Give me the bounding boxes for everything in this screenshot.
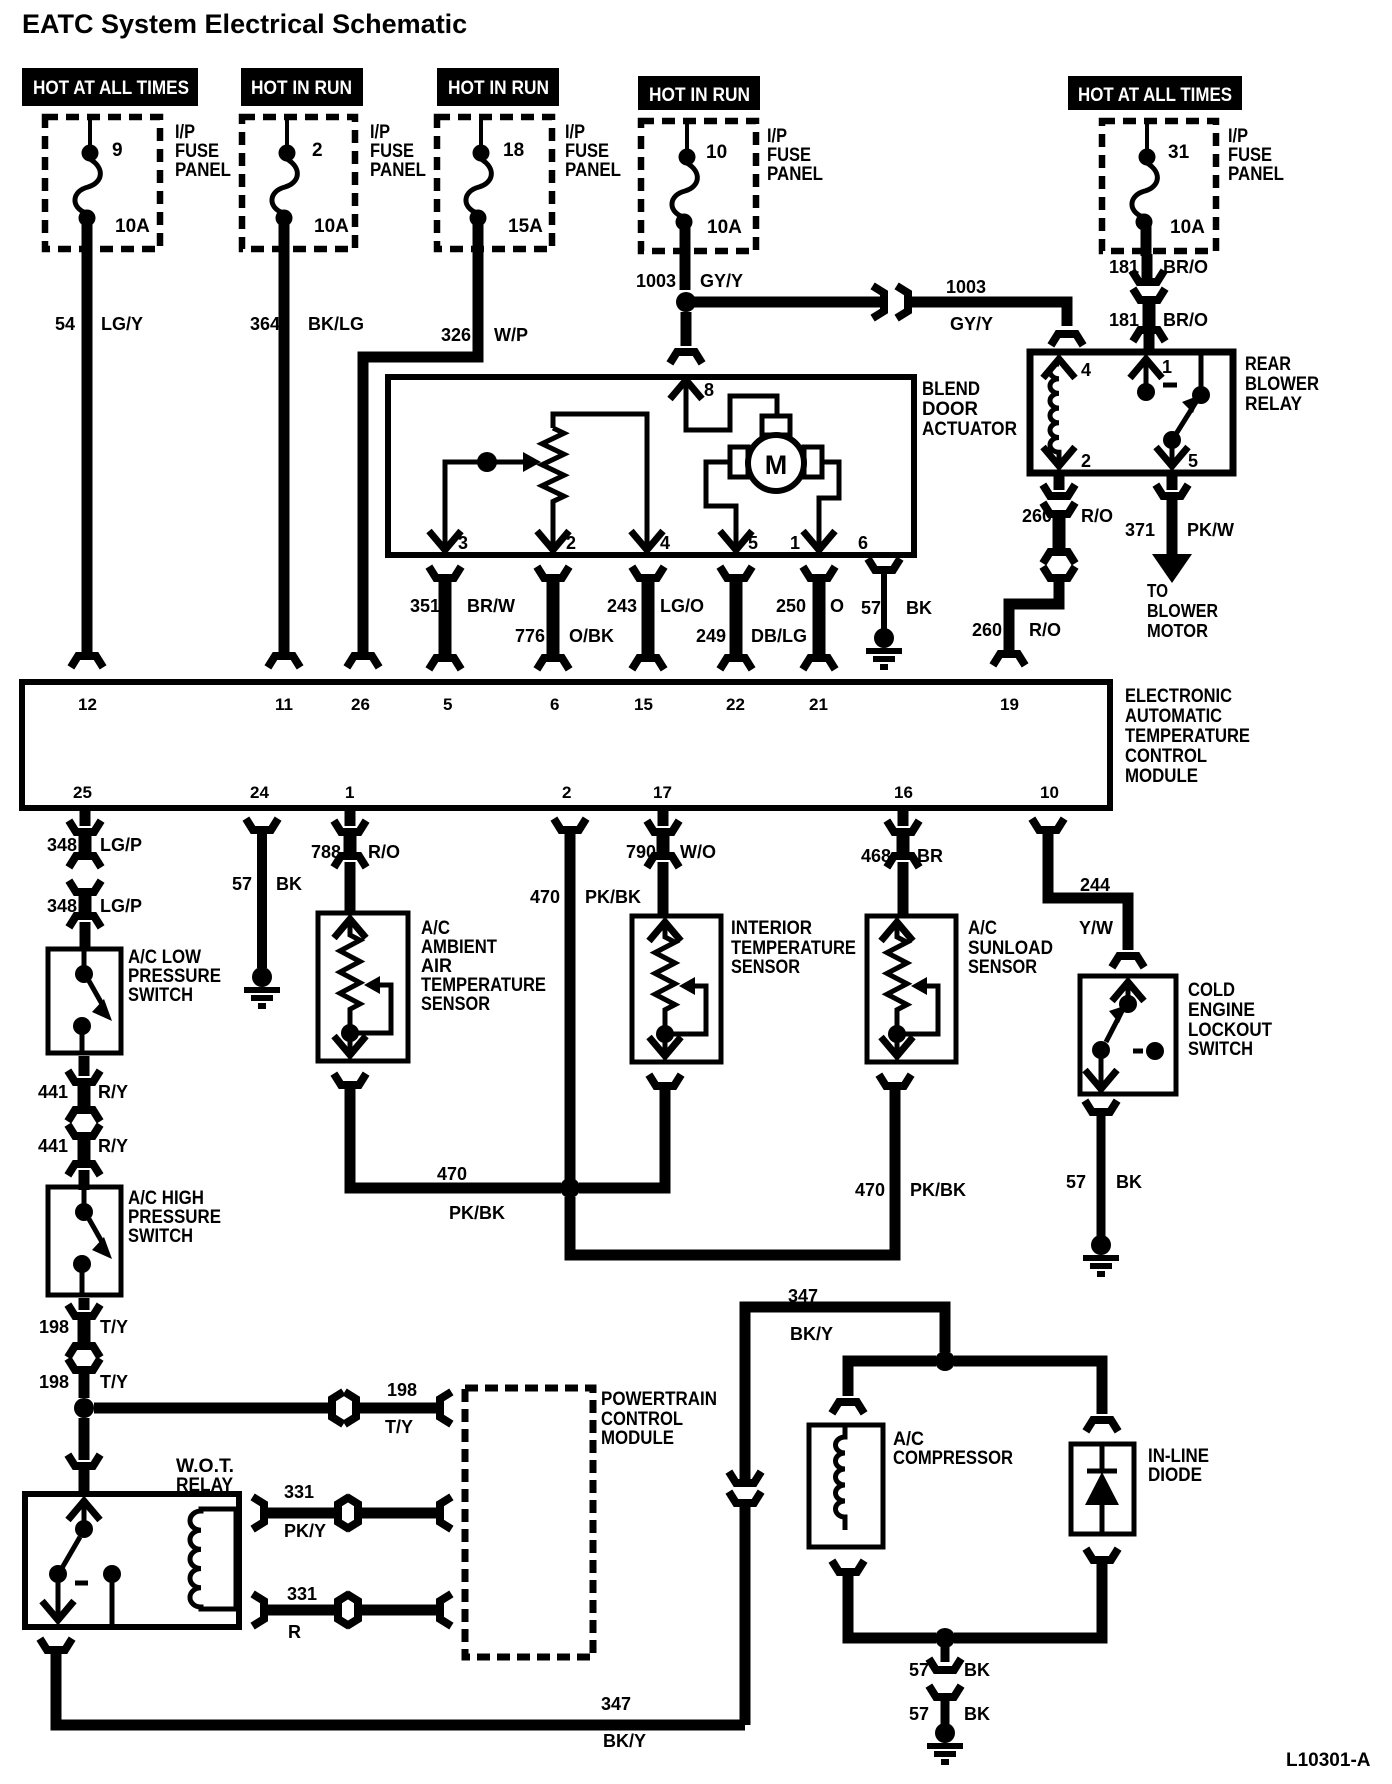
svg-text:10A: 10A xyxy=(1170,217,1205,238)
svg-text:18: 18 xyxy=(503,140,524,161)
svg-text:LG/O: LG/O xyxy=(660,596,704,616)
svg-text:SWITCH: SWITCH xyxy=(1188,1039,1253,1060)
svg-text:R/O: R/O xyxy=(368,842,400,862)
svg-text:3: 3 xyxy=(458,533,468,553)
svg-text:BK/Y: BK/Y xyxy=(603,1731,646,1751)
svg-text:SENSOR: SENSOR xyxy=(731,957,800,978)
svg-text:POWERTRAIN: POWERTRAIN xyxy=(601,1389,717,1410)
svg-text:BK: BK xyxy=(1116,1172,1142,1192)
svg-text:BLEND: BLEND xyxy=(922,379,980,400)
svg-text:SWITCH: SWITCH xyxy=(128,985,193,1006)
svg-text:6: 6 xyxy=(858,533,868,553)
svg-text:RELAY: RELAY xyxy=(1245,394,1302,415)
svg-text:5: 5 xyxy=(443,695,452,714)
svg-text:12: 12 xyxy=(78,695,97,714)
svg-text:26: 26 xyxy=(351,695,370,714)
wire from module pin 16 xyxy=(898,811,909,826)
svg-text:8: 8 xyxy=(704,380,714,400)
W.O.T. relay box xyxy=(25,1456,239,1627)
in-line connector 790 W/O xyxy=(626,824,716,864)
svg-text:17: 17 xyxy=(653,783,672,802)
svg-text:FUSE: FUSE xyxy=(767,145,811,166)
svg-text:DB/LG: DB/LG xyxy=(751,626,807,646)
wire 244 Y/W from module pin 10 xyxy=(1034,822,1142,964)
svg-text:CONTROL: CONTROL xyxy=(1125,746,1207,767)
svg-text:W.O.T.: W.O.T. xyxy=(176,1456,234,1477)
wire to A/C compressor xyxy=(834,1361,936,1410)
connector 250 O (pin 1 to module 21) xyxy=(776,570,844,666)
junction node 198 xyxy=(74,1398,94,1418)
svg-text:BLOWER: BLOWER xyxy=(1147,601,1218,621)
svg-text:HOT AT ALL TIMES: HOT AT ALL TIMES xyxy=(33,78,189,99)
svg-text:FUSE: FUSE xyxy=(565,141,609,162)
svg-text:R/O: R/O xyxy=(1029,620,1061,640)
svg-text:10: 10 xyxy=(706,142,727,163)
svg-text:A/C: A/C xyxy=(968,918,997,939)
wire 57 BK blend door pin 6 ground xyxy=(861,562,932,630)
blend door wiper wire pin 3 xyxy=(429,452,541,553)
svg-text:TEMPERATURE: TEMPERATURE xyxy=(1125,726,1250,747)
wire 57 BK upper half connector xyxy=(909,1647,990,1680)
svg-text:181: 181 xyxy=(1109,310,1139,330)
ground (blend door pin 6) xyxy=(866,628,902,667)
fuse 9 10A I/P fuse panel xyxy=(45,114,231,257)
svg-text:2: 2 xyxy=(1081,451,1091,471)
svg-text:31: 31 xyxy=(1168,142,1190,163)
in-line connector 198 T/Y upper xyxy=(39,1308,128,1354)
connector 249 DB/LG (pin 5 to module 22) xyxy=(696,570,807,666)
svg-text:FUSE: FUSE xyxy=(175,141,219,162)
svg-text:PRESSURE: PRESSURE xyxy=(128,1207,221,1228)
svg-text:331: 331 xyxy=(287,1584,317,1604)
wire 347 BK/Y riser to compressor circuit xyxy=(731,1286,945,1725)
svg-text:I/P: I/P xyxy=(767,126,787,147)
svg-text:16: 16 xyxy=(894,783,913,802)
svg-text:326: 326 xyxy=(441,325,471,345)
svg-text:5: 5 xyxy=(748,533,758,553)
svg-text:BK: BK xyxy=(276,874,302,894)
svg-text:441: 441 xyxy=(38,1082,68,1102)
svg-text:468: 468 xyxy=(861,846,891,866)
svg-text:HOT IN RUN: HOT IN RUN xyxy=(251,78,352,99)
svg-text:BR/O: BR/O xyxy=(1163,257,1208,277)
svg-text:R/Y: R/Y xyxy=(98,1136,128,1156)
interior temperature sensor xyxy=(632,916,856,1062)
svg-text:347: 347 xyxy=(788,1286,818,1306)
svg-text:AIR: AIR xyxy=(421,956,452,977)
svg-text:1: 1 xyxy=(345,783,354,802)
power label HOT AT ALL TIMES (fuse 9) xyxy=(22,68,198,106)
wire from module pin 17 xyxy=(658,811,669,826)
fuse 10 10A I/P fuse panel xyxy=(641,118,823,258)
svg-text:249: 249 xyxy=(696,626,726,646)
svg-text:SWITCH: SWITCH xyxy=(128,1226,193,1247)
W.O.T. relay coil xyxy=(190,1509,236,1609)
svg-text:DOOR: DOOR xyxy=(922,399,978,420)
svg-text:BR/O: BR/O xyxy=(1163,310,1208,330)
in-line connector 441 R/Y upper xyxy=(38,1074,128,1118)
wire 364 BK/LG fuse 2 to module pin 11 xyxy=(250,255,364,664)
power label HOT IN RUN (fuse 18) xyxy=(437,68,559,106)
wire into A/C high pressure switch xyxy=(79,1170,90,1190)
svg-text:PANEL: PANEL xyxy=(175,160,231,181)
svg-text:181: 181 xyxy=(1109,257,1139,277)
svg-text:250: 250 xyxy=(776,596,806,616)
in-line connector 181 BR/O to relay pin 1 xyxy=(1109,292,1208,352)
svg-text:PRESSURE: PRESSURE xyxy=(128,966,221,987)
wire below W.O.T. relay xyxy=(42,1642,745,1725)
power label HOT IN RUN (fuse 10) xyxy=(638,76,760,110)
svg-text:1: 1 xyxy=(790,533,800,553)
svg-text:2: 2 xyxy=(566,533,576,553)
ground (module pin 24) xyxy=(244,967,280,1006)
svg-text:TEMPERATURE: TEMPERATURE xyxy=(731,938,856,959)
svg-text:470: 470 xyxy=(530,887,560,907)
wire below interior sensor to 470 junction xyxy=(579,1078,679,1188)
svg-text:1003: 1003 xyxy=(636,271,676,291)
wire end relay pin 2 xyxy=(1045,476,1073,496)
connector 776 O/BK (pin 2 to module 6) xyxy=(515,570,614,666)
svg-text:R: R xyxy=(288,1622,301,1642)
svg-text:57: 57 xyxy=(861,598,881,618)
svg-text:SENSOR: SENSOR xyxy=(968,957,1037,978)
svg-text:4: 4 xyxy=(660,533,670,553)
wire below sunload sensor (470 PK/BK) xyxy=(570,1078,966,1255)
svg-text:347: 347 xyxy=(601,1694,631,1714)
wire 326 W/P fuse 18 to module pin 26 xyxy=(349,255,528,664)
svg-text:25: 25 xyxy=(73,783,92,802)
svg-text:FUSE: FUSE xyxy=(1228,145,1272,166)
svg-text:EATC System Electrical Schemat: EATC System Electrical Schematic xyxy=(22,9,467,39)
svg-text:57: 57 xyxy=(909,1660,929,1680)
svg-text:470: 470 xyxy=(437,1164,467,1184)
svg-text:CONTROL: CONTROL xyxy=(601,1409,683,1430)
svg-text:LG/Y: LG/Y xyxy=(101,314,143,334)
svg-text:I/P: I/P xyxy=(175,122,195,143)
wire 331 R W.O.T. to PCM xyxy=(256,1584,448,1642)
svg-text:I/P: I/P xyxy=(1228,126,1248,147)
in-line connector 441 R/Y lower xyxy=(38,1128,128,1172)
svg-text:57: 57 xyxy=(909,1704,929,1724)
wire into interior temperature sensor xyxy=(658,862,669,918)
svg-text:MODULE: MODULE xyxy=(601,1428,674,1449)
svg-text:10A: 10A xyxy=(314,216,349,237)
svg-text:331: 331 xyxy=(284,1482,314,1502)
power label HOT AT ALL TIMES (fuse 31) xyxy=(1068,76,1242,110)
wire into sunload sensor xyxy=(898,862,909,918)
svg-text:24: 24 xyxy=(250,783,269,802)
svg-text:PK/BK: PK/BK xyxy=(585,887,641,907)
fuse 2 10A I/P fuse panel xyxy=(242,114,426,257)
svg-text:HOT AT ALL TIMES: HOT AT ALL TIMES xyxy=(1078,85,1232,106)
svg-text:1003: 1003 xyxy=(946,277,986,297)
svg-text:244: 244 xyxy=(1080,875,1110,895)
blend door motor wire to pin 1 xyxy=(790,462,868,553)
svg-text:W/P: W/P xyxy=(494,325,528,345)
svg-text:AUTOMATIC: AUTOMATIC xyxy=(1125,706,1222,727)
connector 243 LG/O (pin 4 to module 15) xyxy=(607,570,704,666)
connector 198 T/Y lower half xyxy=(39,1362,128,1398)
svg-text:790: 790 xyxy=(626,842,656,862)
svg-text:348: 348 xyxy=(47,835,77,855)
powertrain control module box xyxy=(465,1388,717,1657)
wire 347 BK/Y bottom run labels xyxy=(601,1694,646,1751)
fuse 31 10A I/P fuse panel xyxy=(1102,118,1284,256)
svg-text:T/Y: T/Y xyxy=(100,1372,128,1392)
svg-text:W/O: W/O xyxy=(680,842,716,862)
in-line diode xyxy=(1071,1444,1209,1534)
svg-text:LG/P: LG/P xyxy=(100,896,142,916)
rear blower relay coil pins 4-2 xyxy=(1043,359,1091,471)
svg-text:R/Y: R/Y xyxy=(98,1082,128,1102)
svg-text:470: 470 xyxy=(855,1180,885,1200)
svg-text:PK/W: PK/W xyxy=(1187,520,1234,540)
svg-text:BK: BK xyxy=(964,1660,990,1680)
wire into ambient air temperature sensor xyxy=(345,862,356,915)
fuse 18 15A I/P fuse panel xyxy=(437,114,621,257)
rear blower relay switch pins 1-5 xyxy=(1130,355,1210,471)
wire below A/C low pressure switch xyxy=(79,1056,90,1076)
A/C ambient air temperature sensor xyxy=(318,913,546,1061)
svg-text:LOCKOUT: LOCKOUT xyxy=(1188,1020,1272,1041)
svg-text:SUNLOAD: SUNLOAD xyxy=(968,938,1053,959)
wire 371 PK/W arrow to blower motor xyxy=(1125,500,1234,641)
A/C low pressure switch xyxy=(48,947,221,1053)
svg-text:LG/P: LG/P xyxy=(100,835,142,855)
svg-text:441: 441 xyxy=(38,1136,68,1156)
svg-text:22: 22 xyxy=(726,695,745,714)
svg-text:364: 364 xyxy=(250,314,280,334)
svg-text:DIODE: DIODE xyxy=(1148,1465,1202,1486)
svg-text:243: 243 xyxy=(607,596,637,616)
wire 57 BK below cold engine lockout switch xyxy=(1066,1104,1142,1237)
wire 54 LG/Y fuse 9 to module pin 12 xyxy=(55,255,143,664)
in-line connector 260 R/O xyxy=(1022,506,1113,560)
svg-text:15: 15 xyxy=(634,695,653,714)
svg-text:260: 260 xyxy=(972,620,1002,640)
svg-text:A/C: A/C xyxy=(893,1429,924,1450)
svg-text:A/C: A/C xyxy=(421,918,450,939)
svg-text:PANEL: PANEL xyxy=(370,160,426,181)
svg-text:6: 6 xyxy=(550,695,559,714)
wire below A/C high pressure switch xyxy=(79,1298,90,1310)
svg-text:GY/Y: GY/Y xyxy=(950,314,993,334)
svg-text:15A: 15A xyxy=(508,216,543,237)
svg-text:BLOWER: BLOWER xyxy=(1245,374,1319,395)
svg-text:788: 788 xyxy=(311,842,341,862)
wire from module pin 24 to ground xyxy=(232,822,302,968)
svg-text:O/BK: O/BK xyxy=(569,626,614,646)
svg-text:4: 4 xyxy=(1081,360,1091,380)
svg-text:L10301-A: L10301-A xyxy=(1286,1750,1371,1771)
svg-text:TEMPERATURE: TEMPERATURE xyxy=(421,975,546,996)
svg-text:MODULE: MODULE xyxy=(1125,766,1198,787)
blend door actuator box xyxy=(388,377,1017,555)
svg-text:260: 260 xyxy=(1022,506,1052,526)
wire 1003 branch down to blend door pin 8 xyxy=(672,312,700,360)
junction node compressor feed xyxy=(935,1351,955,1371)
wire 1003 GY/Y fuse 10 down to junction xyxy=(636,255,743,291)
svg-text:I/P: I/P xyxy=(370,122,390,143)
wire end relay pin 5 xyxy=(1158,476,1186,496)
svg-text:PANEL: PANEL xyxy=(767,164,823,185)
svg-text:54: 54 xyxy=(55,314,75,334)
svg-text:ENGINE: ENGINE xyxy=(1188,1000,1255,1021)
svg-text:776: 776 xyxy=(515,626,545,646)
svg-text:Y/W: Y/W xyxy=(1079,918,1113,938)
A/C high pressure switch xyxy=(48,1187,221,1295)
svg-text:HOT IN RUN: HOT IN RUN xyxy=(649,85,750,106)
svg-text:PK/BK: PK/BK xyxy=(910,1180,966,1200)
svg-text:11: 11 xyxy=(275,695,293,714)
svg-text:T/Y: T/Y xyxy=(385,1417,413,1437)
wire 331 PK/Y W.O.T. to PCM xyxy=(256,1482,448,1541)
svg-text:I/P: I/P xyxy=(565,122,585,143)
svg-text:BK: BK xyxy=(964,1704,990,1724)
svg-text:21: 21 xyxy=(809,695,828,714)
svg-text:57: 57 xyxy=(232,874,252,894)
blend door motor M xyxy=(730,416,822,491)
svg-text:COMPRESSOR: COMPRESSOR xyxy=(893,1448,1013,1469)
svg-text:SENSOR: SENSOR xyxy=(421,994,490,1015)
svg-text:198: 198 xyxy=(387,1380,417,1400)
svg-text:IN-LINE: IN-LINE xyxy=(1148,1446,1209,1467)
svg-text:BR/W: BR/W xyxy=(467,596,515,616)
svg-text:TO: TO xyxy=(1147,581,1168,601)
wire into A/C low pressure switch xyxy=(80,922,91,949)
svg-text:10: 10 xyxy=(1040,783,1059,802)
connector 351 BR/W (pin 3 to module 5) xyxy=(410,570,515,666)
wire 198 T/Y to PCM xyxy=(94,1380,448,1437)
svg-text:REAR: REAR xyxy=(1245,354,1291,375)
svg-text:PK/Y: PK/Y xyxy=(284,1521,326,1541)
A/C compressor xyxy=(809,1425,1013,1547)
svg-text:AMBIENT: AMBIENT xyxy=(421,937,497,958)
svg-text:M: M xyxy=(765,450,788,480)
svg-text:R/O: R/O xyxy=(1081,506,1113,526)
svg-text:A/C LOW: A/C LOW xyxy=(128,947,201,968)
ground (cold engine lockout) xyxy=(1083,1235,1119,1274)
svg-text:BK/Y: BK/Y xyxy=(790,1324,833,1344)
cold engine lockout switch xyxy=(1080,976,1272,1094)
svg-text:371: 371 xyxy=(1125,520,1155,540)
EATC module box xyxy=(22,682,1250,808)
junction node 57 BK xyxy=(935,1628,955,1648)
in-line connector 348 LG/P lower xyxy=(47,884,142,924)
rear blower relay box xyxy=(1030,352,1319,473)
svg-text:HOT IN RUN: HOT IN RUN xyxy=(448,78,549,99)
ground (compressor circuit) xyxy=(927,1723,963,1762)
wire to in-line diode xyxy=(954,1361,1116,1428)
svg-text:T/Y: T/Y xyxy=(100,1317,128,1337)
svg-text:198: 198 xyxy=(39,1372,69,1392)
wire from module pin 2 (470 PK/BK) xyxy=(530,822,641,1188)
power label HOT IN RUN (fuse 2) xyxy=(241,68,363,106)
wire 181 BR/O fuse 31 to connector xyxy=(1109,254,1208,282)
wire below ambient sensor to 470 junction xyxy=(336,1077,561,1188)
svg-text:COLD: COLD xyxy=(1188,980,1235,1001)
svg-text:GY/Y: GY/Y xyxy=(700,271,743,291)
W.O.T. relay switch xyxy=(42,1501,121,1624)
svg-text:9: 9 xyxy=(112,140,123,161)
svg-text:ELECTRONIC: ELECTRONIC xyxy=(1125,686,1232,707)
blend door pin 8 xyxy=(670,380,777,430)
in-line connector 348 LG/P upper xyxy=(47,824,142,864)
blend door potentiometer xyxy=(537,414,670,553)
svg-text:2: 2 xyxy=(562,783,571,802)
blend door motor wire to pin 5 xyxy=(706,462,758,553)
wire from 198 junction down to W.O.T. relay xyxy=(70,1418,98,1492)
svg-text:198: 198 xyxy=(39,1317,69,1337)
svg-text:1: 1 xyxy=(1162,357,1172,377)
svg-text:PK/BK: PK/BK xyxy=(449,1203,505,1223)
svg-text:10A: 10A xyxy=(115,216,150,237)
svg-text:BK: BK xyxy=(906,598,932,618)
svg-text:MOTOR: MOTOR xyxy=(1147,621,1208,641)
svg-text:PANEL: PANEL xyxy=(1228,164,1284,185)
A/C sunload sensor xyxy=(867,916,1053,1062)
svg-text:5: 5 xyxy=(1188,451,1198,471)
svg-text:A/C HIGH: A/C HIGH xyxy=(128,1188,204,1209)
wire 57 BK lower half to ground xyxy=(909,1689,990,1726)
in-line connector 788 R/O xyxy=(311,824,400,864)
wire below A/C compressor xyxy=(834,1564,936,1638)
svg-text:351: 351 xyxy=(410,596,440,616)
svg-text:PANEL: PANEL xyxy=(565,160,621,181)
svg-text:ACTUATOR: ACTUATOR xyxy=(922,419,1017,440)
svg-text:2: 2 xyxy=(312,140,323,161)
junction node 1003 xyxy=(676,292,696,312)
svg-text:57: 57 xyxy=(1066,1172,1086,1192)
svg-text:FUSE: FUSE xyxy=(370,141,414,162)
svg-text:INTERIOR: INTERIOR xyxy=(731,918,812,939)
wire from module pin 1 xyxy=(345,811,356,826)
svg-text:19: 19 xyxy=(1000,695,1019,714)
wire from module pin 25 xyxy=(80,811,91,826)
wire below in-line diode xyxy=(954,1552,1116,1638)
in-line connector 468 BR xyxy=(861,824,943,866)
svg-text:10A: 10A xyxy=(707,217,742,238)
junction node 470 xyxy=(437,1164,580,1223)
wire 1003 GY/Y horizontal run to rear blower relay xyxy=(694,277,1081,342)
svg-text:348: 348 xyxy=(47,896,77,916)
svg-text:BR: BR xyxy=(917,846,943,866)
svg-text:BK/LG: BK/LG xyxy=(308,314,364,334)
svg-text:O: O xyxy=(830,596,844,616)
wire 260 R/O to module pin 19 xyxy=(972,570,1073,662)
